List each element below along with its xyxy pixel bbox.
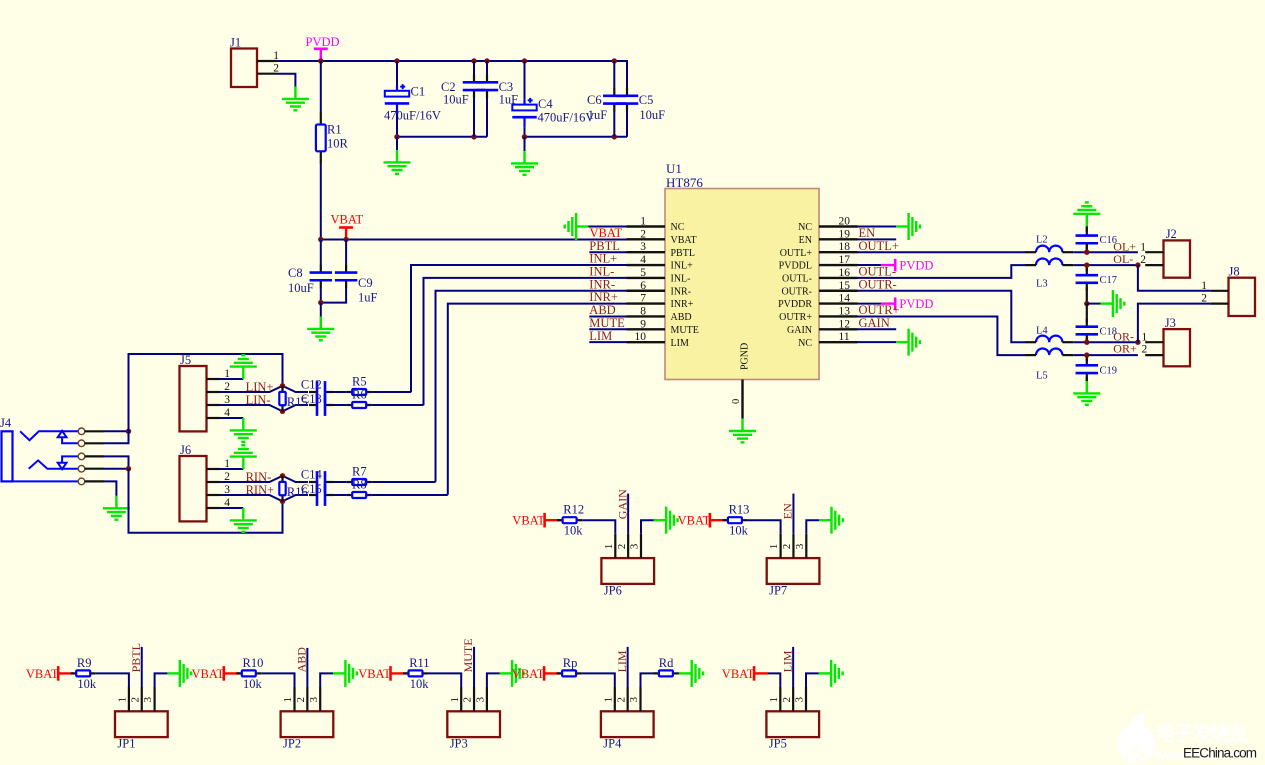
wire RIN+ bowtie [220,495,309,501]
junction C19/OR+ [1084,352,1089,357]
wire VBAT JP4 [544,672,560,674]
svg-text:C1: C1 [411,85,426,99]
svg-text:L5: L5 [1036,371,1048,382]
wire LIN- bowtie [220,405,309,411]
svg-text:1: 1 [640,216,646,228]
svg-text:R1: R1 [327,123,342,137]
svg-text:PVDD: PVDD [899,258,933,272]
svg-text:INL+: INL+ [671,261,694,272]
wire C5 bottom [626,111,628,136]
wire J4 ring switch [104,456,129,468]
resistor R9 [71,670,96,676]
pin 3 of JP3 [486,687,488,711]
pin 8 of U1 [627,315,666,317]
pin 1 of J2 [1145,251,1163,253]
wire OUTR- [858,291,1026,342]
svg-text:R12: R12 [563,503,584,517]
wire J1 pin2 to ground [277,74,296,87]
power bar VBAT [339,226,353,229]
resistor R8 [347,492,372,498]
svg-text:C9: C9 [358,276,373,290]
svg-text:PVDDL: PVDDL [779,261,812,272]
svg-text:MUTE: MUTE [589,316,625,330]
ground PGND [729,419,756,443]
junction C18/OR- [1084,340,1089,345]
svg-text:2: 2 [615,697,627,703]
pin 9 of U1 [627,328,666,330]
svg-text:1: 1 [449,697,461,703]
ground below J5 pin 4 [230,418,257,442]
pin 17 of U1 [819,264,858,266]
pin 13 of U1 [819,315,858,317]
svg-text:GAIN: GAIN [787,325,812,336]
pin 11 of U1 [819,341,858,343]
junction PVDD/R1 [318,58,323,63]
svg-text:2: 2 [129,697,141,703]
svg-text:R9: R9 [77,656,92,670]
ground at JP6 [654,507,678,534]
inductor L5 [1036,348,1062,355]
svg-text:10k: 10k [729,524,749,538]
wire INR- net [436,291,627,482]
wire pin11 to ground [858,341,897,343]
svg-text:3: 3 [142,697,154,703]
wire OR- to J8 pin2 [1138,304,1210,343]
svg-text:INR+: INR+ [589,290,618,304]
wire EN net JP7 [792,494,794,534]
ground at J4 sleeve [103,496,130,520]
wire VBAT rail to pin 2 [321,239,628,241]
wire C15 to R8 [333,494,347,496]
power bar VBAT JP4 [543,666,546,681]
ground below J6 pin 4 [230,508,257,532]
svg-text:2: 2 [640,228,646,240]
wire ABD net JP2 [306,648,308,687]
svg-text:2: 2 [1201,293,1207,305]
svg-text:15: 15 [839,280,851,292]
svg-text:L4: L4 [1036,326,1048,337]
connector J4 jack body [2,431,13,481]
junction J4 ring [126,466,131,471]
inductor L4 [1036,336,1062,343]
power bar VBAT JP3 [389,666,392,681]
svg-text:U1: U1 [666,161,682,176]
inductor L2 [1036,246,1062,253]
ground at JP5 [819,660,843,687]
resistor R13 [722,517,747,523]
capacitor C4 [512,100,536,128]
J4 contact circle 3 [78,453,85,460]
wire INL+ net [411,265,627,392]
wire LIN+ bowtie [220,386,309,392]
svg-text:10k: 10k [77,677,97,691]
svg-text:JP2: JP2 [283,737,301,751]
wire pin1 to ground [589,226,627,228]
wire gnd to C16 [1086,226,1088,231]
wire C6 top [613,61,615,88]
junction C16/OL+ [1084,250,1089,255]
svg-text:J4: J4 [0,416,12,430]
power bar VBAT JP1 [57,666,60,681]
capacitor C1 [385,86,409,114]
connector JP6 [601,558,654,584]
junction VBAT/C9 [343,237,348,242]
pin 7 of U1 [627,302,666,304]
svg-text:ABD: ABD [295,647,309,673]
svg-text:12: 12 [839,318,851,330]
svg-text:OL-: OL- [1113,252,1133,266]
svg-text:J1: J1 [230,36,241,50]
svg-text:3: 3 [628,697,640,703]
capacitor C6 [603,88,626,112]
wire MUTE net JP3 [473,647,475,687]
svg-text:VBAT: VBAT [331,213,364,227]
svg-text:Rp: Rp [563,656,578,670]
svg-text:3: 3 [629,543,641,549]
svg-text:JP5: JP5 [769,737,787,751]
J4 ring contact [29,460,79,468]
svg-text:NC: NC [798,338,812,349]
svg-text:NC: NC [671,222,685,233]
wire J6 pin1 [220,468,244,470]
wire L4 to J3 pin1 [1073,341,1138,343]
svg-text:20: 20 [839,216,851,228]
wire R12 to JP6 pin1 [582,520,615,534]
svg-text:10uF: 10uF [639,108,665,122]
ground at JP1 [167,660,191,687]
svg-text:C17: C17 [1100,275,1118,286]
power bar PVDD [314,47,328,50]
wire C18 to OR- [1086,338,1088,342]
svg-text:电子发烧友: 电子发烧友 [1155,721,1249,745]
wire pin20 to ground [858,226,897,228]
wire J4 tip [104,430,129,432]
pin 1 of JP4 [614,687,616,711]
J4 contact circle 5 [78,478,85,485]
connector J6 [180,456,207,521]
svg-text:11: 11 [839,331,850,343]
resistor R7 [347,479,372,485]
wire Rp to JP4 pin1 [582,673,615,687]
wire RIN- bowtie [220,476,309,482]
svg-text:C12: C12 [301,378,322,392]
wire OL- to J8 pin1 [1138,265,1210,291]
pin 5 of J4 [85,480,104,482]
pin 4 of J6 [207,507,220,509]
pin 3 of JP2 [319,687,321,711]
ground below C19 [1073,381,1100,405]
svg-text:2: 2 [295,697,307,703]
svg-text:2: 2 [781,544,793,550]
junction J8 tap OL- [1135,262,1140,267]
pin 1 of JP7 [779,534,781,558]
pin 3 of J6 [207,494,220,496]
watermark logo [1117,712,1156,765]
pin 4 of U1 [627,264,666,266]
wire C9 top [345,240,347,265]
wire PVDDR [858,303,882,305]
wire J5 pin4 [220,417,244,419]
capacitor C9 [335,265,358,289]
wire L2 to J2 pin1 [1073,251,1138,253]
pin 1 of J3 [1145,341,1163,343]
svg-text:ABD: ABD [671,312,692,323]
pin 1 of JP6 [614,534,616,558]
svg-text:C8: C8 [288,266,303,280]
svg-text:VBAT: VBAT [192,667,225,681]
svg-text:R6: R6 [352,388,367,402]
svg-text:1: 1 [603,544,615,550]
wire J4 ring [104,468,129,470]
wire mid to C18 [1086,304,1088,323]
wire C19 to ground [1086,377,1088,381]
svg-text:NC: NC [798,222,812,233]
junction C2 top [471,58,476,63]
wire VBAT JP1 [58,672,74,674]
pin 18 of U1 [819,251,858,253]
svg-text:R10: R10 [243,656,264,670]
svg-text:J6: J6 [180,443,191,457]
svg-text:R7: R7 [352,465,367,479]
ground below C4 [511,151,538,175]
wire pin3 JP2 [320,673,333,687]
svg-text:OUTL+: OUTL+ [780,248,813,259]
junction C8/C9 gnd [318,300,323,305]
wire R5 out [372,391,411,393]
junction C6 top [612,58,617,63]
capacitor C8 [310,265,333,289]
svg-text:3: 3 [640,241,646,253]
ground at JP2 [333,660,357,687]
wire C14 to R7 [333,481,347,483]
svg-text:5: 5 [640,267,646,279]
svg-text:JP4: JP4 [603,737,622,751]
wire C3 bottom [486,98,488,137]
wire C1 bottom [396,114,398,137]
svg-text:1: 1 [768,697,780,703]
pin 1 of JP5 [779,687,781,711]
wire gnd rail 2 [525,136,628,138]
junction RIN+ [280,499,285,504]
svg-text:VBAT: VBAT [512,514,545,528]
svg-text:RIN-: RIN- [246,470,272,484]
wire C13 to R6 [333,404,347,406]
svg-text:R8: R8 [352,478,367,492]
pin 2 of JP7 [792,534,794,558]
wire J4 tip switch [104,431,129,443]
svg-text:470uF/16V: 470uF/16V [384,109,441,123]
svg-text:13: 13 [839,305,851,317]
pin 2 of JP4 [627,687,629,711]
wire OUTL- [858,265,1026,278]
connector JP5 [766,711,819,737]
capacitor C19 [1076,357,1099,381]
svg-text:C6: C6 [587,93,602,107]
wire R1 to VBAT rail [320,164,322,240]
J4 tip contact [20,431,78,440]
wire pin3 JP6 [641,520,654,534]
ground at JP4 [679,660,703,687]
J4 contact circle 4 [78,465,85,472]
svg-text:10R: 10R [327,137,349,151]
svg-text:2: 2 [462,697,474,703]
svg-text:3: 3 [794,697,806,703]
wire INR+ net [448,304,627,495]
svg-text:1uF: 1uF [588,108,608,122]
svg-text:19: 19 [839,228,851,240]
svg-text:2: 2 [1142,344,1148,356]
ground below C1 [384,150,411,174]
pin 1 of J1 [257,60,277,62]
svg-text:R11: R11 [409,656,429,670]
wire C6 bottom [613,111,615,136]
svg-text:0: 0 [731,399,742,404]
connector J1 [231,49,257,88]
svg-text:GAIN: GAIN [615,489,629,519]
pin 2 of J2 [1145,264,1163,266]
pin 2 of JP1 [141,687,143,711]
wire VBAT JP3 [391,672,407,674]
pin 6 of U1 [627,290,666,292]
capacitor C18 [1076,319,1099,343]
pin 2 of JP6 [627,534,629,558]
svg-text:INL-: INL- [671,274,691,285]
svg-text:6: 6 [640,280,646,292]
svg-text:OUTL-: OUTL- [859,265,897,279]
svg-text:10uF: 10uF [288,281,314,295]
svg-text:J3: J3 [1165,316,1176,330]
capacitor C14 [309,471,333,493]
J4 ring switch arrow [58,456,79,469]
ground above J6 pin 1 [230,445,257,469]
pin 2 of JP2 [306,687,308,711]
wire C17 to mid [1086,287,1088,304]
wire to ground [320,303,322,317]
svg-text:16: 16 [839,267,851,279]
pin 14 of U1 [819,302,858,304]
svg-text:INR+: INR+ [671,299,694,310]
svg-text:RIN+: RIN+ [246,483,275,497]
wire R13 to JP7 pin1 [747,520,780,534]
wire R7 out [372,481,436,483]
power bar PVDD right 2 [894,297,897,309]
junction C2 bottom [471,134,476,139]
svg-text:18: 18 [839,241,851,253]
wire PVDD stub 2 [881,302,894,304]
wire C1 top [396,61,398,86]
svg-text:1: 1 [282,697,294,703]
wire pin3 JP4 [641,673,657,687]
svg-text:INL-: INL- [589,265,614,279]
svg-text:LIM: LIM [780,650,794,672]
power bar VBAT JP6 [543,513,546,528]
svg-text:GAIN: GAIN [859,316,890,330]
ground at pin 11 [896,329,920,356]
svg-text:2: 2 [616,544,628,550]
junction LIN+ [280,383,285,388]
wire VBAT JP7 [710,519,726,521]
wire C4 rail to ground [524,137,526,151]
svg-text:PVDD: PVDD [306,35,340,49]
wire R10 to JP2 pin1 [261,673,294,687]
svg-text:JP6: JP6 [604,583,622,597]
svg-text:LIN+: LIN+ [246,380,274,394]
svg-text:OUTL+: OUTL+ [859,239,899,253]
junction C6 bottom [612,134,617,139]
svg-text:PBTL: PBTL [671,248,695,259]
pin 1 of U1 [627,225,666,227]
svg-text:PBTL: PBTL [129,643,143,672]
pin 1 of J5 [207,378,220,380]
wire J5 pin1 [220,378,244,380]
power bar VBAT JP2 [223,666,226,681]
pin 1 of JP1 [128,687,130,711]
wire J4 ring to RIN+ [129,469,283,533]
connector JP4 [601,711,654,737]
capacitor C5 [616,88,639,112]
svg-text:EN: EN [781,503,795,519]
J4 tip switch arrow [58,431,79,444]
svg-text:10: 10 [635,331,647,343]
svg-text:10k: 10k [243,677,263,691]
wire C4 bottom [524,128,526,137]
svg-text:LIM: LIM [671,338,689,349]
svg-text:10k: 10k [410,677,430,691]
ground at JP7 [819,507,843,534]
wire R8 out [372,494,448,496]
svg-text:PGND: PGND [739,343,750,370]
svg-text:C5: C5 [639,93,654,107]
pin 2 of J6 [207,481,220,483]
svg-text:LIN-: LIN- [246,393,271,407]
svg-text:OUTR-: OUTR- [781,286,812,297]
pin 19 of U1 [819,238,858,240]
wire OL- to C17 [1086,265,1088,271]
capacitor C15 [309,484,333,506]
pin 5 of U1 [627,277,666,279]
svg-text:R13: R13 [729,503,750,517]
pin 2 of J3 [1145,354,1163,356]
wire VBAT JP2 [224,672,240,674]
wire gnd rail 1 [397,136,487,138]
pin 1 of J6 [207,468,220,470]
svg-text:C19: C19 [1100,366,1118,377]
svg-text:PVDD: PVDD [899,297,933,311]
wire J6 pin4 [220,507,244,509]
svg-text:2: 2 [781,697,793,703]
svg-text:EN: EN [799,235,812,246]
svg-text:C14: C14 [301,468,323,482]
wire C2 bottom [473,98,475,137]
wire OR+ to C19 [1086,355,1088,361]
wire EN stub [858,238,897,240]
wire C2 top [473,61,475,75]
svg-text:VBAT: VBAT [671,235,697,246]
junction C17/OL- [1084,262,1089,267]
connector J2 [1164,240,1191,277]
pin 1 of JP2 [293,687,295,711]
resistor R16 [279,476,285,502]
wire C3 top [486,61,488,75]
pin 1 of JP3 [460,687,462,711]
junction C4 bottom [522,134,527,139]
capacitor C2 [463,74,486,98]
ground at pin 1 [565,213,589,240]
svg-text:J8: J8 [1229,265,1240,279]
junction RIN- [280,473,285,478]
resistor R1 [316,112,326,165]
wire MUTE stub [589,328,626,330]
